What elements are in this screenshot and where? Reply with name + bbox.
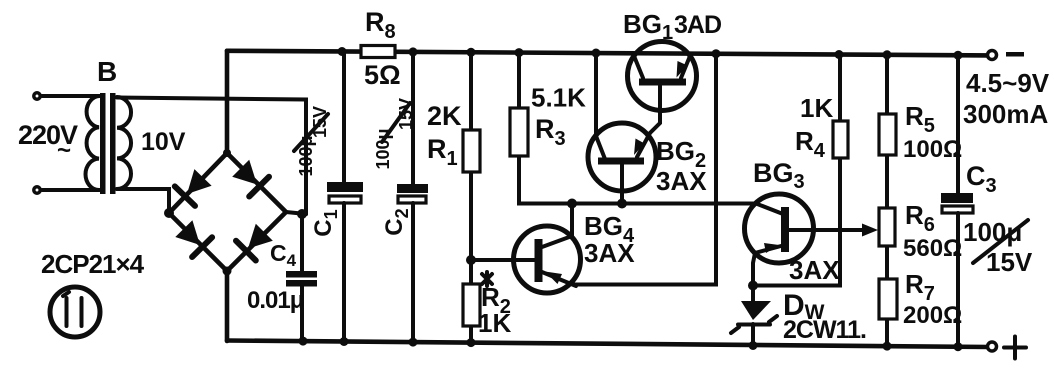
svg-text:2K: 2K: [427, 101, 462, 131]
svg-text:C1: C1: [310, 209, 341, 236]
svg-text:R5: R5: [905, 101, 935, 137]
svg-text:R6: R6: [905, 200, 935, 236]
svg-text:C3: C3: [966, 161, 997, 197]
svg-text:15V: 15V: [986, 247, 1033, 277]
svg-text:100μ: 100μ: [373, 128, 393, 169]
svg-text:3AD: 3AD: [674, 11, 721, 39]
svg-text:B: B: [97, 56, 117, 87]
svg-text:C2: C2: [381, 208, 412, 235]
svg-text:1K: 1K: [478, 308, 511, 338]
svg-text:1K: 1K: [800, 93, 833, 123]
svg-text:5Ω: 5Ω: [364, 60, 401, 90]
svg-text:3AX: 3AX: [584, 238, 635, 268]
svg-text:5.1K: 5.1K: [531, 83, 586, 113]
svg-text:100μ: 100μ: [296, 135, 316, 176]
svg-text:BG1: BG1: [623, 9, 673, 44]
svg-text:BG3: BG3: [753, 158, 805, 193]
svg-text:R3: R3: [535, 114, 566, 150]
svg-text:R8: R8: [365, 7, 396, 43]
svg-text:0.01μ: 0.01μ: [247, 287, 304, 314]
svg-text:R1: R1: [427, 134, 458, 170]
svg-text:3AX: 3AX: [656, 166, 707, 196]
svg-text:2CW11.: 2CW11.: [783, 316, 866, 344]
svg-text:C4: C4: [270, 240, 297, 270]
svg-text:200Ω: 200Ω: [903, 302, 962, 329]
svg-text:100Ω: 100Ω: [903, 136, 962, 163]
svg-text:R7: R7: [905, 269, 935, 305]
svg-text:300mA: 300mA: [963, 99, 1048, 129]
svg-text:3AX: 3AX: [789, 255, 840, 285]
svg-text:10V: 10V: [141, 128, 186, 156]
svg-text:R4: R4: [795, 126, 826, 162]
svg-text:560Ω: 560Ω: [903, 235, 962, 262]
svg-text:2CP21×4: 2CP21×4: [41, 249, 145, 279]
svg-text:15V: 15V: [396, 98, 416, 130]
svg-text:~: ~: [57, 137, 71, 164]
svg-text:4.5~9V: 4.5~9V: [966, 68, 1050, 98]
